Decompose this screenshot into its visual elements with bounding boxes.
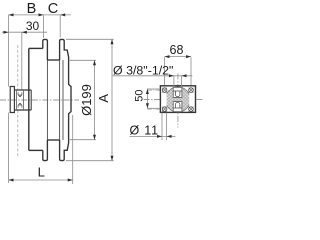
ext line port left — [173, 76, 175, 88]
svg-text:L: L — [38, 165, 45, 180]
svg-text:C: C — [48, 1, 58, 17]
groove floor bottom — [47, 139, 59, 141]
dim line 30 — [2, 31, 47, 33]
arrow D11 right outside — [167, 135, 172, 138]
svg-text:68: 68 — [170, 43, 184, 57]
top surface to left rib — [29, 47, 43, 49]
hub boss bottom edge — [14, 109, 31, 111]
hole row centerline bottom — [147, 108, 195, 110]
arrow A top — [111, 39, 114, 44]
port lower detail — [173, 102, 181, 108]
leader line D11 — [130, 135, 176, 137]
svg-text:A: A — [96, 94, 111, 103]
dim line 68 — [165, 56, 192, 58]
arrow D11 left outside — [157, 135, 162, 138]
port upper — [173, 87, 182, 97]
bolt hole BR — [189, 107, 194, 112]
drum right face with boss — [69, 60, 71, 140]
spline symbol upper — [18, 92, 22, 96]
phantom shaft line (dashed vertical at left) — [17, 45, 19, 156]
ext line 30 right — [21, 32, 23, 89]
ext line L right — [72, 115, 74, 184]
arrow D199 bottom — [93, 135, 96, 140]
arrow 68 left — [165, 55, 170, 58]
ext line D199 bottom — [69, 139, 96, 141]
spline box right wall — [23, 90, 25, 110]
spline symbol lower — [18, 104, 22, 108]
arrow B left — [9, 13, 14, 16]
ext line D11 left — [161, 113, 163, 140]
arrow A bottom — [111, 156, 114, 161]
flange vertical centerline — [177, 74, 179, 128]
port thread leader line — [113, 75, 193, 77]
bolt hole BL — [162, 107, 167, 112]
svg-text:Ø 11: Ø 11 — [130, 123, 159, 137]
flange plate — [160, 86, 195, 113]
spline box left wall — [15, 90, 17, 110]
svg-text:B: B — [27, 1, 37, 17]
ext line 50 bottom — [147, 107, 160, 109]
ext line A bottom — [66, 160, 114, 162]
ext line A top — [66, 38, 114, 40]
hub plate — [10, 87, 14, 113]
bolt hole TL — [162, 88, 167, 93]
right rib (bottom) — [60, 140, 69, 161]
groove floor top — [47, 59, 59, 61]
left rib (bottom) — [43, 140, 48, 161]
svg-text:Ø 3/8"-1/2": Ø 3/8"-1/2" — [113, 63, 173, 77]
ext line 50 top — [147, 88, 160, 90]
ext line B right — [43, 15, 45, 38]
svg-text:50: 50 — [134, 89, 146, 101]
ext line left common (B,30,L) — [8, 15, 10, 183]
hole row centerline top — [147, 89, 195, 91]
hole column ext right — [190, 57, 192, 86]
arrow L right — [68, 179, 73, 182]
arrow 68 right — [186, 55, 191, 58]
centerline (horizontal, pulley axis) — [0, 99, 79, 101]
dim line L — [9, 179, 73, 181]
ext line D199 top — [69, 59, 96, 61]
ext line C right — [59, 15, 61, 38]
port upper detail — [173, 91, 181, 97]
arrow 50 bottom — [146, 103, 149, 108]
disc left face — [28, 48, 30, 150]
svg-text:Ø199: Ø199 — [79, 84, 94, 116]
dim line D199 — [94, 60, 96, 139]
flange horizontal centerline — [144, 99, 204, 101]
hub circle hatched — [165, 87, 190, 112]
arrow B right — [39, 13, 44, 16]
ext line port right — [181, 76, 183, 88]
arrow 50 top — [146, 89, 149, 94]
right rib (top) — [60, 39, 69, 60]
arrow 30 right outside — [22, 31, 27, 34]
arrow 30 left outside — [4, 31, 9, 34]
arrow L left — [9, 179, 14, 182]
hole column ext left — [164, 57, 166, 86]
dim line B/C — [9, 14, 72, 16]
left rib (top) — [43, 39, 48, 60]
bolt hole TR — [189, 88, 194, 93]
drum left face — [62, 60, 64, 140]
hub boss top edge — [14, 89, 31, 91]
bottom surface to left rib — [29, 149, 43, 151]
ext line D11 right — [166, 113, 168, 140]
dim line 50 — [146, 89, 148, 108]
hub bore line right of disc face — [30, 90, 32, 110]
arrow D199 top — [93, 60, 96, 65]
arrow port left outside — [169, 74, 174, 77]
dim line A — [111, 39, 113, 160]
rim inner wall left — [46, 60, 48, 140]
arrow C right outside — [60, 13, 65, 16]
port lower — [173, 102, 182, 112]
svg-text:30: 30 — [26, 19, 40, 33]
hole column centerline right — [190, 87, 192, 113]
hole column centerline left — [164, 87, 166, 113]
rim inner wall right — [59, 60, 61, 140]
arrow port right outside — [182, 74, 187, 77]
